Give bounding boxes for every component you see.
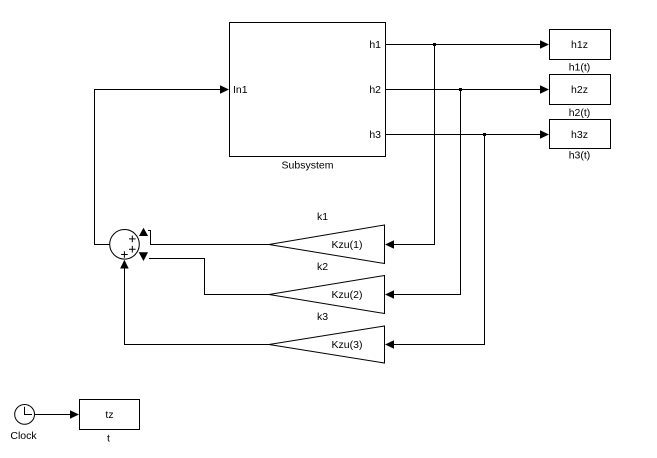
- svg-text:h2z: h2z: [571, 84, 588, 96]
- wire sum to In1: [95, 85, 230, 244]
- svg-text:tz: tz: [105, 409, 113, 421]
- svg-text:h2(t): h2(t): [569, 107, 591, 119]
- node h2 branch: [459, 88, 462, 91]
- wire h2 to gain K2: [385, 90, 461, 299]
- svg-text:k2: k2: [317, 261, 328, 273]
- gain K2 Kzu(2): [269, 261, 385, 314]
- block h3z: [550, 120, 611, 162]
- wire gain K2 to sum: [139, 252, 269, 294]
- svg-text:k3: k3: [317, 311, 328, 323]
- wire h3 to gain K3: [385, 135, 485, 349]
- svg-text:h3z: h3z: [571, 129, 588, 141]
- gain K3 Kzu(3): [269, 311, 385, 363]
- sum S1: [110, 230, 140, 260]
- gain K1 Kzu(1): [269, 211, 385, 264]
- block h1z: [550, 30, 611, 74]
- svg-text:In1: In1: [233, 84, 248, 96]
- svg-text:Kzu(2): Kzu(2): [332, 289, 363, 301]
- svg-text:Kzu(1): Kzu(1): [332, 239, 363, 251]
- wire gain K1 to sum: [139, 228, 269, 245]
- svg-text:h1: h1: [369, 39, 381, 51]
- svg-text:h3: h3: [369, 129, 381, 141]
- svg-text:Kzu(3): Kzu(3): [332, 339, 363, 351]
- wire h3 out: [386, 130, 550, 139]
- block h2z: [550, 75, 611, 120]
- svg-text:h2: h2: [369, 84, 381, 96]
- svg-text:Clock: Clock: [10, 430, 37, 442]
- svg-text:h1(t): h1(t): [569, 62, 591, 74]
- wire h2 out: [386, 85, 550, 94]
- node h3 branch: [483, 133, 486, 136]
- svg-text:Subsystem: Subsystem: [282, 160, 334, 172]
- wire gain K3 to sum: [120, 260, 269, 345]
- svg-text:h3(t): h3(t): [569, 150, 591, 162]
- wire h1 to gain K1: [385, 45, 435, 249]
- node h1 branch: [433, 43, 436, 46]
- wire clock to tz: [35, 410, 80, 419]
- wire h1 out: [386, 40, 550, 49]
- clock CLK: [10, 405, 37, 443]
- block tz: [80, 400, 140, 445]
- svg-text:k1: k1: [317, 211, 328, 223]
- svg-text:t: t: [107, 433, 110, 445]
- svg-text:h1z: h1z: [571, 39, 588, 51]
- subsystem U1: [230, 23, 386, 172]
